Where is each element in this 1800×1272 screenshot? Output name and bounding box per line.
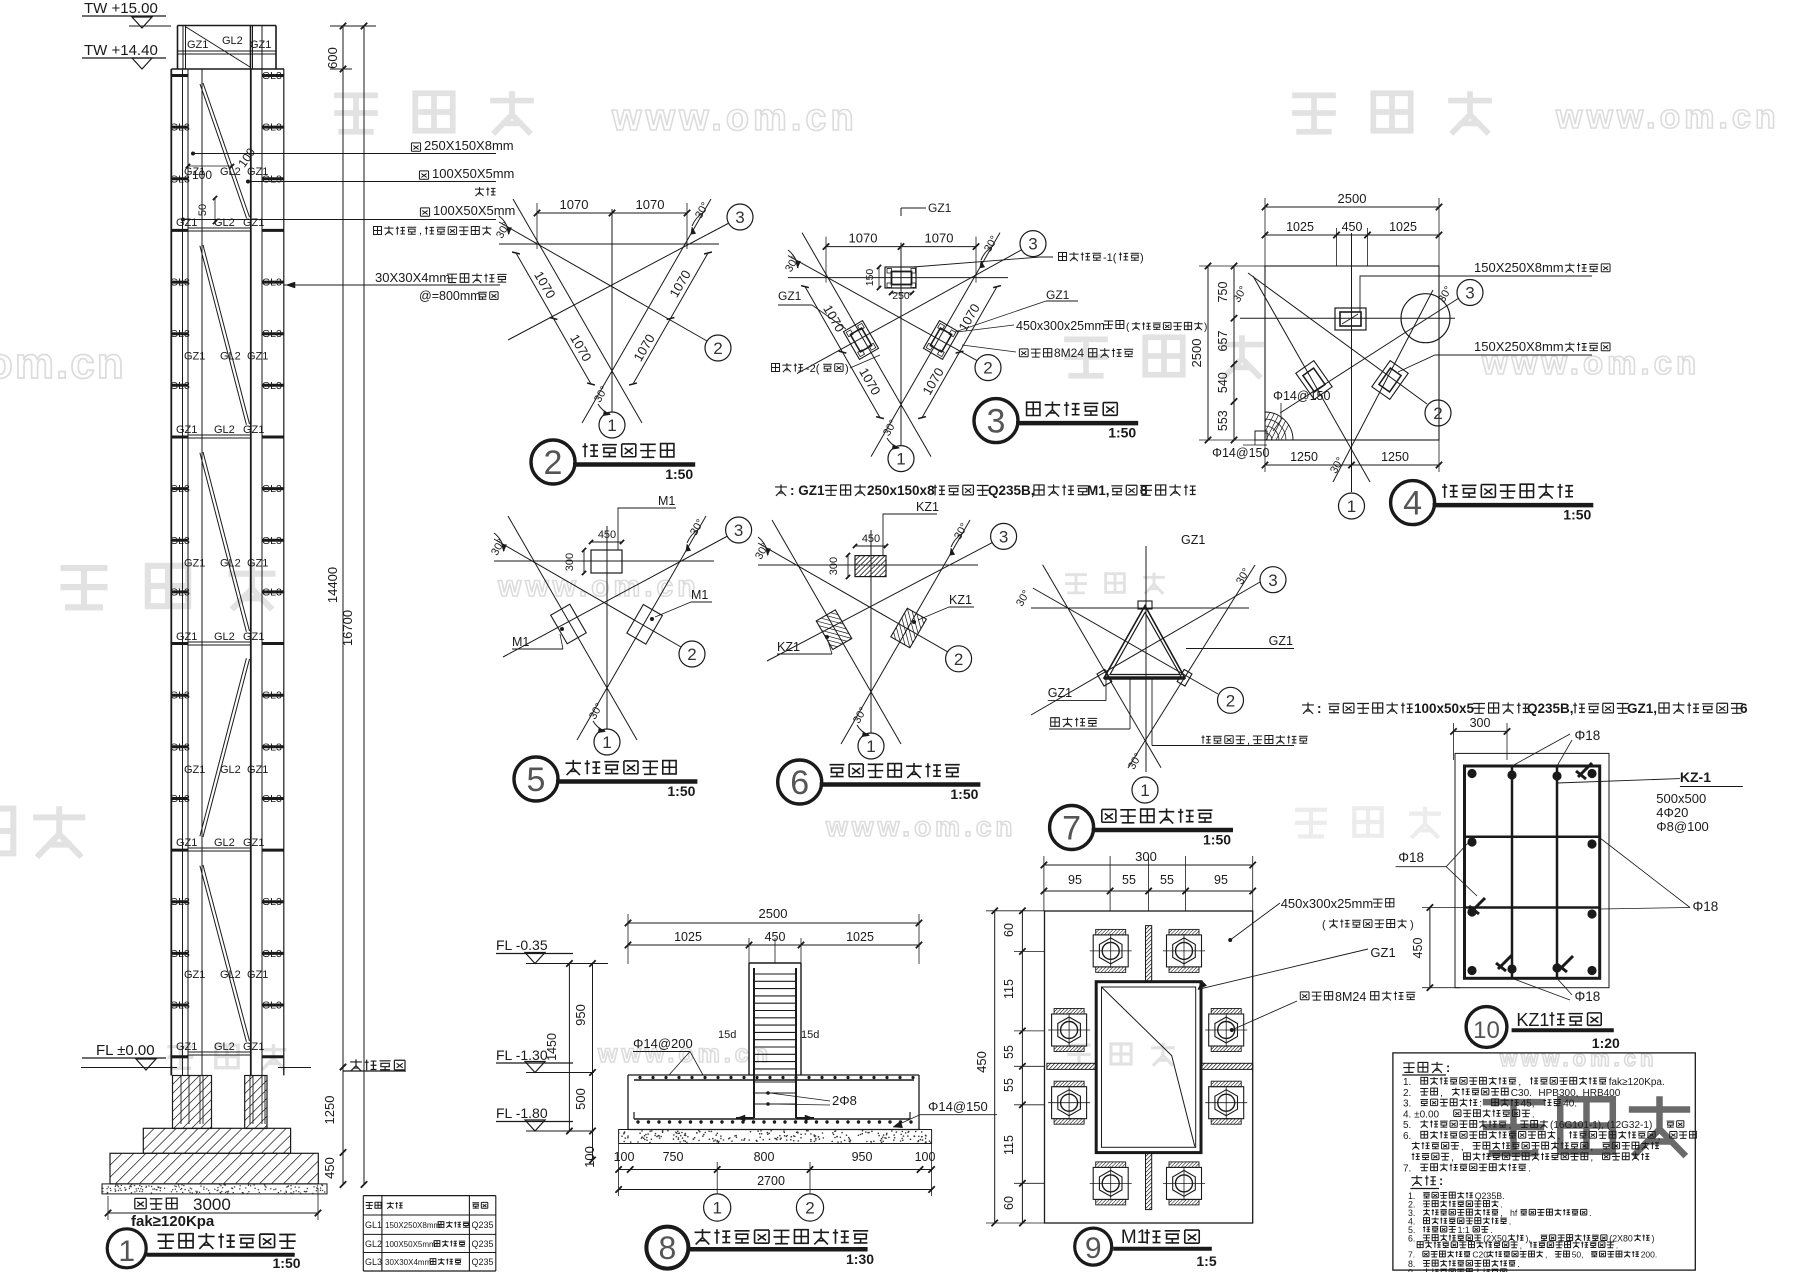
- svg-text:450: 450: [322, 1157, 337, 1179]
- svg-text:3: 3: [735, 208, 744, 227]
- svg-text:8: 8: [1140, 483, 1148, 498]
- svg-text:1:20: 1:20: [1592, 1035, 1620, 1051]
- svg-text:2: 2: [983, 359, 992, 378]
- svg-text:4: 4: [1403, 485, 1422, 523]
- svg-text:2500: 2500: [759, 906, 788, 921]
- svg-text:200.: 200.: [1641, 1250, 1658, 1260]
- svg-text:3: 3: [999, 528, 1008, 547]
- column GL3 tie bars: [262, 74, 284, 77]
- diagram 7 horizontal brace plan group: [1014, 533, 1748, 850]
- flange strip left hatched: [1047, 1063, 1096, 1069]
- watermark ou-mo-wang logo: [1292, 91, 1492, 134]
- rotated plate left: [1296, 361, 1332, 400]
- svg-text:GZ1: GZ1: [1181, 533, 1205, 547]
- svg-text:KZ1: KZ1: [1516, 1010, 1549, 1030]
- svg-text:100: 100: [582, 1146, 597, 1168]
- title 1 underline: [147, 1253, 295, 1257]
- svg-text:.: .: [1532, 1109, 1535, 1120]
- svg-text:KZ-1: KZ-1: [1680, 769, 1711, 785]
- svg-text:657: 657: [1216, 331, 1230, 352]
- title 7 underline: [1092, 828, 1233, 833]
- title 9: [1075, 1228, 1112, 1265]
- svg-text:1070: 1070: [636, 197, 665, 212]
- svg-text:250: 250: [892, 290, 910, 302]
- svg-text:GL3: GL3: [365, 1257, 382, 1267]
- M1 base plate outline: [1045, 911, 1253, 1223]
- outer concrete outline: [1455, 753, 1609, 987]
- svg-text:2: 2: [713, 339, 722, 358]
- svg-text:@=800mm: @=800mm: [419, 289, 481, 303]
- axis steep line right: [582, 199, 711, 423]
- svg-text:),: ),: [1526, 1233, 1534, 1243]
- svg-text:2: 2: [1433, 404, 1442, 423]
- svg-text:2.: 2.: [1403, 1088, 1414, 1099]
- svg-text:250x150x8: 250x150x8: [867, 483, 935, 498]
- stirrup grid inner lines: [1511, 766, 1514, 978]
- svg-text:100: 100: [915, 1150, 936, 1164]
- svg-text:-2(: -2(: [806, 363, 820, 375]
- svg-text:450: 450: [1342, 220, 1363, 234]
- svg-text:Φ14@200: Φ14@200: [633, 1036, 693, 1051]
- svg-text:1250: 1250: [322, 1096, 337, 1125]
- title 4 underline: [1433, 503, 1594, 508]
- svg-text:450x300x25mm: 450x300x25mm: [1281, 896, 1374, 911]
- svg-text:3: 3: [1465, 284, 1474, 303]
- svg-text:5: 5: [527, 761, 546, 799]
- svg-text:40.: 40.: [1563, 1099, 1577, 1110]
- svg-text:www.om.cn: www.om.cn: [825, 811, 1017, 842]
- svg-text:GL3: GL3: [262, 483, 282, 495]
- svg-text:): ): [1204, 322, 1207, 333]
- svg-text:GL3: GL3: [262, 741, 282, 753]
- svg-text:450: 450: [1411, 938, 1425, 959]
- svg-text:www.om.cn: www.om.cn: [497, 570, 700, 603]
- title 5 bubble: [514, 757, 558, 801]
- svg-text:1: 1: [712, 1199, 721, 1218]
- left dim extension lines: [986, 910, 1045, 912]
- bottom dim 1250/1250: [1265, 464, 1439, 466]
- svg-text:1:1: 1:1: [1458, 1225, 1470, 1235]
- watermark ou-mo-wang logo: [1067, 1043, 1175, 1066]
- svg-text:www.om.cn: www.om.cn: [611, 97, 858, 139]
- svg-text:14400: 14400: [325, 567, 340, 603]
- svg-text:,: ,: [1518, 1077, 1524, 1088]
- title 4 text: [1442, 483, 1573, 498]
- axis horizontal line: [788, 277, 1008, 279]
- stirrup hook ticks: [1578, 763, 1592, 777]
- svg-text:,: ,: [419, 225, 422, 237]
- anchor bolt M24: [1093, 935, 1128, 967]
- triangle bottom chord thick: [1104, 676, 1185, 680]
- axis bubble 1: [704, 1194, 731, 1221]
- watermark ou-mo-wang logo: [167, 1044, 286, 1069]
- svg-text:95: 95: [1068, 873, 1082, 887]
- svg-text:GL3: GL3: [262, 690, 282, 702]
- svg-text:2: 2: [805, 1199, 814, 1218]
- svg-text:GL2: GL2: [220, 351, 241, 363]
- top dim 2500: [1265, 206, 1439, 208]
- leader lianjiejian-1 outer: [913, 257, 1053, 267]
- svg-text:GZ1: GZ1: [1046, 288, 1070, 302]
- svg-text:GL3: GL3: [170, 690, 190, 702]
- svg-text:9.: 9.: [1408, 1267, 1418, 1272]
- column wide section start line: [171, 68, 284, 70]
- svg-text:1025: 1025: [1389, 220, 1417, 234]
- axis vertical line: [1145, 546, 1147, 772]
- svg-text:553: 553: [1216, 410, 1230, 431]
- svg-text:150X250X8mm: 150X250X8mm: [385, 1221, 440, 1230]
- svg-text:450: 450: [974, 1051, 989, 1073]
- footing block: [110, 1153, 318, 1184]
- svg-text:GL3: GL3: [170, 483, 190, 495]
- svg-text:45,: 45,: [1521, 1099, 1538, 1110]
- title 5 underline: [556, 779, 697, 784]
- svg-text:.: .: [1518, 1259, 1520, 1269]
- svg-text:1:50: 1:50: [273, 1255, 301, 1271]
- callout ju250X150X8mm tube: [193, 153, 496, 155]
- svg-text:): ): [1410, 919, 1414, 931]
- svg-text:60: 60: [1002, 923, 1016, 937]
- central GZ1 tube: [1096, 982, 1201, 1153]
- diagram 5 embedded plate plan group: [489, 494, 752, 801]
- svg-text:KZ1: KZ1: [916, 500, 939, 514]
- axis bubble 2: [705, 335, 731, 361]
- flange strip right hatched: [1201, 1063, 1253, 1069]
- svg-text:300: 300: [828, 557, 840, 575]
- svg-text:Φ18: Φ18: [1693, 899, 1719, 914]
- svg-text:GZ1: GZ1: [247, 351, 268, 363]
- svg-text:GZ1: GZ1: [928, 201, 952, 215]
- diagram 8 foundation section group: [363, 906, 997, 1271]
- material table: [363, 1195, 496, 1197]
- svg-text:GZ1: GZ1: [243, 631, 264, 643]
- watermark ou-mo-wang logo: [334, 91, 534, 134]
- anchor bolt M24: [1052, 1087, 1087, 1119]
- KZ-1 label with leader: [1557, 779, 1680, 783]
- left dim 750/657/540/553: [1233, 266, 1235, 440]
- svg-text:1025: 1025: [846, 930, 874, 944]
- axis shallow line to bubble 2: [788, 256, 977, 361]
- svg-text:50,: 50,: [1572, 1250, 1586, 1260]
- axis shallow line desc: [1033, 588, 1218, 694]
- svg-text:3.: 3.: [1403, 1099, 1414, 1110]
- dim extension lines: [1043, 856, 1045, 911]
- dim 300 top: [1454, 730, 1508, 732]
- title 3 bubble: [974, 399, 1018, 443]
- svg-text:55: 55: [1002, 1078, 1016, 1092]
- notes box border: [1393, 1053, 1695, 1270]
- dim extension lines: [627, 914, 629, 964]
- svg-text:100: 100: [614, 1150, 635, 1164]
- svg-text::: :: [1479, 1099, 1485, 1110]
- svg-text:750: 750: [1216, 282, 1230, 303]
- footing top rebar with dots: [634, 1079, 914, 1081]
- axis shallow line asc: [1280, 298, 1459, 413]
- axis bubble 2: [1425, 400, 1451, 426]
- svg-text:GZ1: GZ1: [247, 166, 268, 178]
- svg-text:10: 10: [1473, 1017, 1500, 1044]
- svg-text:Φ14@150: Φ14@150: [1273, 389, 1330, 403]
- svg-text:9: 9: [1085, 1232, 1102, 1265]
- svg-text:50: 50: [197, 204, 209, 216]
- svg-text:GL2: GL2: [214, 1041, 235, 1053]
- svg-text:GL3: GL3: [170, 586, 190, 598]
- rotated connection plate left: [843, 321, 878, 360]
- svg-text:1250: 1250: [1381, 450, 1409, 464]
- svg-text:Φ14@150: Φ14@150: [928, 1099, 988, 1114]
- M1 plate at top: [591, 550, 622, 573]
- svg-text:M1: M1: [691, 588, 708, 602]
- title 6 text: [830, 763, 960, 778]
- svg-text:GZ1: GZ1: [176, 1041, 197, 1053]
- anchor bolt M24: [1209, 1014, 1244, 1046]
- svg-text:1070: 1070: [925, 231, 954, 246]
- axis steep line 1: [1253, 276, 1370, 482]
- svg-text:,: ,: [1440, 1088, 1446, 1099]
- axis bubble 1: [888, 446, 914, 472]
- axis bubble 3: [1457, 280, 1483, 306]
- watermark ou-mo-wang dark large bottom-right: [1483, 1096, 1690, 1156]
- extension lines bottom: [618, 1144, 620, 1197]
- svg-text:100X50X5mm: 100X50X5mm: [385, 1240, 436, 1249]
- elevation dimension line 14400/600/1250/450: [342, 26, 344, 1185]
- axis bubble 3: [726, 517, 752, 543]
- svg-text:GZ1: GZ1: [243, 837, 264, 849]
- svg-text:GL3: GL3: [262, 122, 282, 134]
- svg-text:GZ1: GZ1: [247, 969, 268, 981]
- GZ1 leader top: [900, 208, 902, 216]
- svg-text:1:50: 1:50: [1108, 425, 1136, 441]
- anchor bolt M24: [1167, 935, 1202, 967]
- note under diagram 3: [775, 484, 787, 495]
- middle tier: [143, 1128, 290, 1153]
- svg-text:GZ1: GZ1: [176, 837, 197, 849]
- svg-text:,: ,: [1658, 1131, 1664, 1142]
- right M1 plate rotated: [627, 605, 663, 645]
- pedestal stirrups: [754, 973, 796, 975]
- svg-text:GL2: GL2: [222, 35, 243, 47]
- svg-text:2500: 2500: [1338, 191, 1367, 206]
- svg-text:GL3: GL3: [262, 70, 282, 82]
- column chord vertical lines: [170, 69, 172, 1075]
- title 1 text zhi-cheng-li-mian-bu-zhi-tu: [158, 1233, 296, 1249]
- top dimension 1070+1070: [537, 212, 687, 214]
- axis steep line right: [841, 520, 970, 744]
- svg-text:GL3: GL3: [262, 948, 282, 960]
- top dim 1025/450/1025: [1265, 234, 1439, 236]
- axis bubble 2: [679, 641, 705, 667]
- axis bubble 1: [599, 412, 625, 438]
- axis bubble 3: [1020, 231, 1046, 257]
- svg-text:4. ±0.00: 4. ±0.00: [1403, 1109, 1442, 1120]
- svg-text:1: 1: [1347, 497, 1356, 516]
- svg-text:): ): [845, 363, 849, 375]
- svg-text:,: ,: [1520, 1240, 1525, 1250]
- notes heading concrete: [1403, 1062, 1442, 1073]
- svg-text:,: ,: [1461, 1142, 1467, 1153]
- small step rect: [1255, 431, 1267, 440]
- svg-text:GL3: GL3: [262, 277, 282, 289]
- svg-text:115: 115: [1002, 979, 1016, 999]
- svg-text:GL2: GL2: [214, 424, 235, 436]
- title 4 bubble: [1391, 481, 1435, 525]
- svg-text:GZ1: GZ1: [1269, 634, 1293, 648]
- svg-text:GL3: GL3: [262, 1000, 282, 1012]
- axis horizontal line: [499, 243, 719, 245]
- axis steep line left: [772, 520, 901, 744]
- svg-text:Φ14@150: Φ14@150: [1212, 446, 1269, 460]
- title 7 text: [1102, 808, 1213, 823]
- tube diagonal: [1102, 987, 1195, 1147]
- anchor bolt M24: [1093, 1167, 1128, 1199]
- title 2 text: [582, 443, 673, 457]
- oblique dim line right: [633, 253, 708, 384]
- svg-text:GL3: GL3: [170, 741, 190, 753]
- svg-text:6: 6: [1740, 701, 1748, 716]
- svg-text:Q235: Q235: [472, 1239, 494, 1249]
- svg-text:1:50: 1:50: [665, 466, 693, 482]
- axis steep line 2: [1333, 290, 1433, 482]
- svg-text:GL2: GL2: [214, 837, 235, 849]
- svg-text:1: 1: [866, 737, 875, 756]
- big detail circle: [1401, 294, 1450, 343]
- svg-text:1025: 1025: [674, 930, 702, 944]
- axis bubble 2: [796, 1194, 823, 1221]
- svg-text:(16G101-1), (12G32-1): (16G101-1), (12G32-1): [1550, 1120, 1652, 1131]
- title 5 text: [565, 760, 676, 775]
- horizontal brace label: [1201, 735, 1245, 743]
- column top section outline: [178, 25, 277, 27]
- leader 150X250X8mm tube 1: [1360, 276, 1592, 312]
- svg-text:GL3: GL3: [262, 586, 282, 598]
- svg-text:1025: 1025: [1286, 220, 1314, 234]
- svg-text::: :: [1439, 1174, 1443, 1188]
- axis vertical line: [870, 530, 872, 733]
- svg-text:GL3: GL3: [262, 793, 282, 805]
- title 2 underline: [573, 462, 695, 467]
- axis shallow line to bubble 2: [758, 543, 948, 652]
- svg-text:GL2: GL2: [220, 558, 241, 570]
- svg-text:6.: 6.: [1403, 1131, 1414, 1142]
- svg-text:www.om.cn: www.om.cn: [1499, 1046, 1657, 1071]
- svg-text:300: 300: [1135, 849, 1157, 864]
- svg-text:100X50X5mm: 100X50X5mm: [433, 203, 515, 218]
- svg-text:Φ18: Φ18: [1575, 728, 1601, 743]
- svg-text:1070: 1070: [849, 231, 878, 246]
- left M1 plate rotated: [551, 604, 587, 644]
- top dim 95/55/55/95: [1044, 890, 1253, 892]
- svg-text:GZ1: GZ1: [176, 424, 197, 436]
- anchor bolts in pedestals: [180, 1076, 182, 1125]
- svg-text:GL3: GL3: [170, 380, 190, 392]
- axis bubble 2: [975, 355, 1001, 381]
- svg-text:GZ1: GZ1: [1370, 945, 1395, 960]
- svg-text:GL2: GL2: [365, 1239, 382, 1249]
- axis vertical line: [900, 243, 902, 446]
- svg-text:1250: 1250: [1290, 450, 1318, 464]
- svg-text:30X30X4mm: 30X30X4mm: [375, 270, 450, 285]
- svg-text:16700: 16700: [340, 610, 355, 646]
- pedestal hatch lines: [120, 1076, 263, 1129]
- svg-text:GL3: GL3: [262, 328, 282, 340]
- svg-text:250X150X8mm: 250X150X8mm: [424, 138, 514, 153]
- axis bubble 1: [1339, 493, 1365, 519]
- svg-text:7: 7: [1062, 810, 1081, 848]
- column top GL2 beam: [178, 53, 277, 55]
- svg-text:GZ1: GZ1: [176, 217, 197, 229]
- svg-text:Q235B,: Q235B,: [988, 483, 1035, 498]
- column lines into pedestal: [170, 1068, 172, 1076]
- svg-text::: :: [1317, 701, 1325, 716]
- svg-text:GL2: GL2: [214, 217, 235, 229]
- axis steep line left: [513, 199, 642, 423]
- svg-text:5.: 5.: [1403, 1120, 1414, 1131]
- svg-text:800: 800: [754, 1150, 775, 1164]
- oblique dim line right: [922, 287, 997, 418]
- svg-text:,: ,: [1500, 1208, 1505, 1218]
- svg-text:om.cn: om.cn: [0, 339, 126, 388]
- axis steep line left: [508, 516, 637, 740]
- title 3 underline: [1016, 421, 1138, 426]
- svg-text:1:50: 1:50: [1563, 507, 1591, 523]
- KZ1 stub at top hatched: [855, 556, 886, 577]
- svg-text:GZ1: GZ1: [184, 351, 205, 363]
- axis steep line left: [1043, 565, 1161, 768]
- svg-text:TW +15.00: TW +15.00: [84, 0, 158, 17]
- anchor bolt M24: [1167, 1167, 1202, 1199]
- svg-text:GL3: GL3: [170, 793, 190, 805]
- svg-text:GZ1,: GZ1,: [1627, 701, 1657, 716]
- diagram 3 steel column layout group: [772, 201, 1208, 498]
- axis shallow line to bubble 3: [767, 542, 993, 661]
- pedestal rebar cage: [753, 968, 755, 1118]
- left dim 450: [994, 911, 996, 1223]
- old soil layer text + 3000 dim: [135, 1198, 177, 1209]
- pedestal walls: [748, 963, 750, 1075]
- svg-text:300: 300: [564, 553, 576, 571]
- svg-text:1: 1: [602, 733, 611, 752]
- svg-text:M1: M1: [512, 635, 529, 649]
- axis vertical line: [611, 209, 613, 412]
- svg-text:GZ1: GZ1: [243, 217, 264, 229]
- svg-text:540: 540: [1216, 372, 1230, 393]
- svg-text:Φ8@100: Φ8@100: [1656, 819, 1709, 834]
- svg-text:M1: M1: [1121, 1227, 1147, 1248]
- title 1 bubble: [107, 1229, 146, 1268]
- top dimension 1070+1070: [826, 246, 976, 248]
- svg-text:GL3: GL3: [170, 122, 190, 134]
- svg-text:.: .: [1509, 1267, 1511, 1272]
- axis shallow line asc: [1031, 582, 1260, 715]
- left pedestal hatched: [173, 1076, 212, 1129]
- svg-text:1:30: 1:30: [846, 1251, 874, 1267]
- axis steep line right: [577, 516, 706, 740]
- svg-text:1: 1: [1140, 781, 1149, 800]
- dim 450 top: [855, 545, 886, 547]
- title 8: [646, 1227, 688, 1269]
- svg-text:8: 8: [659, 1230, 677, 1266]
- svg-text:450x300x25mm: 450x300x25mm: [1016, 319, 1105, 333]
- svg-text:95: 95: [1214, 873, 1228, 887]
- right KZ1 stub rotated hatched: [880, 594, 935, 667]
- title 3 text: [1027, 401, 1118, 416]
- svg-text:1.: 1.: [1403, 1077, 1414, 1088]
- svg-text:GL3: GL3: [170, 328, 190, 340]
- svg-text:FL -1.80: FL -1.80: [496, 1105, 548, 1121]
- axis steep line right: [871, 233, 1000, 457]
- svg-text:HRB400: HRB400: [1583, 1088, 1621, 1099]
- callout 30X30X4mm tube: [284, 284, 500, 286]
